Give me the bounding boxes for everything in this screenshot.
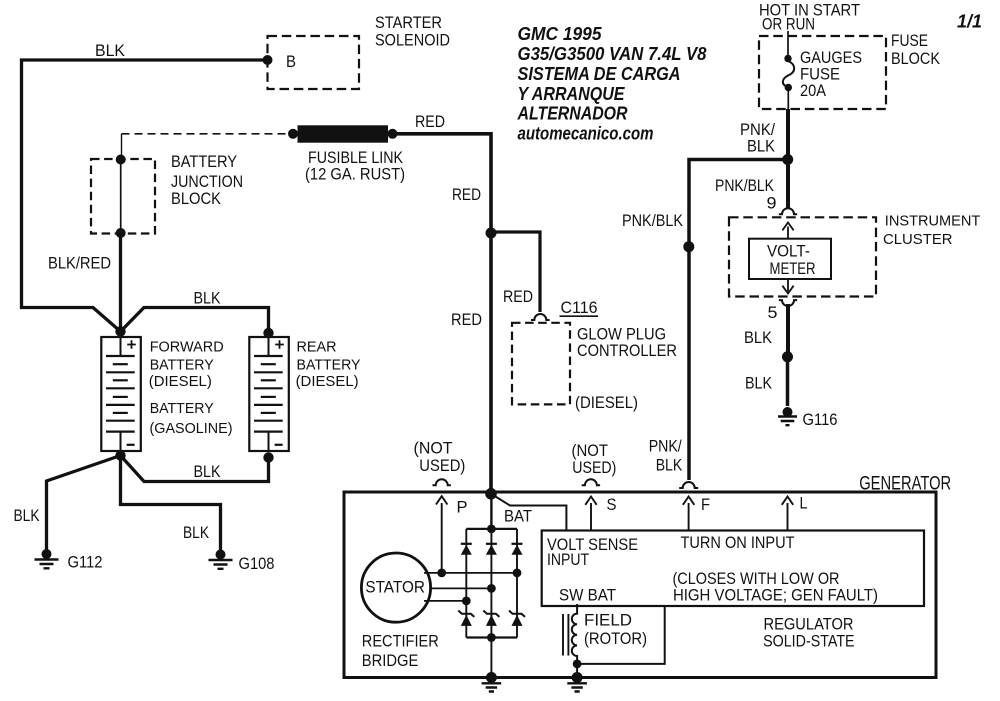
arrow up into voltmeter — [782, 223, 793, 240]
node dot PNK/BLK junction below fuse — [782, 154, 793, 165]
wire BLK forward battery negative to ground G112 — [47, 456, 121, 551]
label BLK battery top wire — [194, 289, 222, 308]
svg-text:PNK/BLK: PNK/BLK — [715, 176, 775, 195]
svg-text:(DIESEL): (DIESEL) — [149, 374, 212, 390]
svg-text:C116: C116 — [561, 298, 598, 317]
label RED lower on main red wire — [451, 310, 482, 329]
svg-text:BLK/RED: BLK/RED — [48, 254, 111, 273]
label VOLT SENSE INPUT — [547, 535, 638, 569]
ground G108 — [209, 550, 233, 569]
connector bump S not used — [582, 479, 600, 485]
label (DIESEL) glow plug — [575, 393, 638, 412]
label INSTRUMENT CLUSTER — [883, 213, 980, 249]
svg-text:USED): USED) — [572, 458, 616, 477]
label pin S — [607, 495, 617, 514]
svg-text:S: S — [607, 495, 617, 514]
svg-text:G112: G112 — [68, 553, 103, 572]
svg-text:BLK: BLK — [194, 289, 222, 308]
svg-text:GENERATOR: GENERATOR — [859, 473, 951, 494]
glow plug controller dashed box — [512, 323, 570, 405]
label STARTER SOLENOID — [375, 13, 450, 50]
wire BLK horizontal from forward battery to rear battery positive — [121, 308, 269, 334]
label pin 5 — [768, 303, 778, 322]
stator phase wire 1 — [424, 572, 517, 574]
label GAUGES FUSE 20A — [800, 48, 862, 100]
label (NOT USED) at S — [572, 441, 617, 477]
label RED at fusible link — [415, 112, 445, 131]
label RED on glow plug branch — [503, 287, 533, 306]
node dot forward battery positive — [115, 326, 125, 336]
wire thin vertical inside battery junction block — [120, 160, 122, 234]
svg-text:RED: RED — [503, 287, 533, 306]
node dot rear battery positive — [263, 328, 273, 338]
svg-text:INPUT: INPUT — [547, 550, 589, 569]
svg-text:BATTERY: BATTERY — [297, 357, 361, 373]
ground at rectifier bridge — [482, 672, 502, 692]
label FORWARD BATTERY (DIESEL) BATTERY (GASOLINE) — [149, 339, 233, 437]
label pin L — [800, 494, 808, 513]
svg-text:B: B — [286, 52, 296, 71]
label PNK/BLK above pin 9 — [715, 176, 775, 195]
label (NOT USED) at P — [414, 439, 466, 476]
connector C116 bump on glow plug controller — [531, 314, 550, 320]
label CLOSES WITH LOW OR HIGH VOLTAGE GEN FAULT — [673, 569, 879, 605]
svg-text:FORWARD: FORWARD — [150, 339, 224, 355]
label STATOR — [365, 579, 425, 597]
arrow L terminal — [782, 497, 793, 531]
node dot PNK/BLK mid junction — [683, 241, 694, 252]
forward battery symbol — [101, 337, 141, 451]
svg-text:BRIDGE: BRIDGE — [362, 651, 419, 670]
dashed wire from battery junction block to fusible link — [122, 134, 293, 158]
battery junction block dashed box — [91, 159, 155, 234]
svg-text:BLOCK: BLOCK — [891, 49, 941, 68]
svg-text:HIGH VOLTAGE; GEN FAULT): HIGH VOLTAGE; GEN FAULT) — [673, 586, 878, 605]
label pin B — [286, 52, 296, 71]
label FUSIBLE LINK value — [305, 148, 405, 184]
label BLK rear battery negative wire — [194, 462, 222, 481]
svg-text:OR RUN: OR RUN — [762, 15, 815, 34]
stator winding circle — [361, 553, 430, 622]
wire BLK from starter solenoid B terminal down-left to forward battery positive — [22, 60, 268, 332]
svg-text:(GASOLINE): (GASOLINE) — [150, 421, 233, 437]
instrument cluster dashed box — [729, 217, 876, 296]
rectifier bridge top bus — [466, 528, 517, 530]
rectifier bridge bottom bus — [466, 636, 517, 638]
zener diode D5 lower middle — [483, 611, 499, 626]
svg-text:TURN ON INPUT: TURN ON INPUT — [681, 533, 795, 552]
svg-text:BATTERY: BATTERY — [150, 357, 214, 373]
label pin P — [457, 498, 468, 517]
wire rectifier to generator case ground — [490, 638, 492, 678]
label BLK to G108 — [183, 523, 210, 542]
svg-text:PNK/: PNK/ — [649, 437, 682, 456]
svg-text:G108: G108 — [239, 554, 275, 573]
label BATTERY JUNCTION BLOCK — [171, 152, 243, 208]
svg-text:G116: G116 — [803, 410, 838, 429]
svg-text:(12 GA. RUST): (12 GA. RUST) — [305, 165, 405, 184]
svg-text:Y ARRANQUE: Y ARRANQUE — [518, 84, 626, 104]
svg-text:CONTROLLER: CONTROLLER — [577, 341, 677, 360]
voltmeter box U1 — [749, 239, 831, 279]
field rotor coil core bars — [563, 614, 568, 656]
connector bump pin 5 on instrument cluster bottom — [779, 300, 797, 306]
node dot forward battery negative — [115, 450, 125, 460]
node dot BAT at generator box edge — [485, 488, 497, 500]
title block GMC 1995 — [517, 24, 707, 144]
node dot RED wire junction to glow plug branch — [486, 228, 497, 239]
svg-text:BLK: BLK — [747, 137, 776, 156]
rectifier bridge left rail — [465, 529, 467, 638]
wire PNK/BLK from fuse block down to junction — [786, 109, 790, 160]
stator phase wire 3 — [424, 600, 466, 602]
svg-text:9: 9 — [767, 194, 777, 213]
label PNK/BLK at generator F terminal — [649, 437, 683, 475]
svg-text:SW BAT: SW BAT — [559, 586, 616, 605]
label RED upper on main red wire — [452, 185, 481, 204]
svg-text:BATTERY: BATTERY — [150, 401, 214, 417]
node dot P on phase 1 — [437, 569, 446, 578]
svg-text:BAT: BAT — [504, 507, 532, 526]
connector bump at generator F terminal — [679, 482, 698, 488]
svg-text:BLK: BLK — [95, 41, 126, 60]
svg-text:1/1: 1/1 — [957, 12, 982, 32]
label BLK/RED — [48, 254, 111, 273]
node dot field coil bottom — [573, 660, 582, 669]
label PNK/BLK left branch — [622, 211, 684, 230]
wire BAT down into rectifier bridge — [490, 494, 492, 529]
svg-text:ALTERNADOR: ALTERNADOR — [517, 104, 628, 124]
node dot rear battery negative — [263, 452, 273, 462]
svg-text:F: F — [701, 495, 710, 514]
zener diode D6 lower right — [509, 611, 525, 626]
node dot rectifier bottom bus — [487, 633, 496, 642]
field rotor coil L1 — [572, 604, 577, 664]
label BAT — [504, 507, 532, 526]
svg-text:PNK/BLK: PNK/BLK — [622, 211, 684, 230]
label REGULATOR SOLID-STATE — [763, 616, 855, 651]
wire BLK forward battery negative to ground G108 — [121, 456, 221, 551]
stator phase wire 2 — [430, 587, 491, 589]
svg-text:(DIESEL): (DIESEL) — [575, 393, 638, 412]
svg-text:METER: METER — [770, 259, 816, 278]
diode D2 upper middle — [486, 544, 497, 555]
node dot BLK splice — [782, 351, 793, 362]
rear battery symbol — [249, 337, 288, 451]
connector bump pin 9 on instrument cluster — [779, 208, 797, 214]
wire RED from fusible link right and down to generator BAT — [393, 134, 492, 492]
regulator solid-state box — [542, 531, 924, 607]
svg-text:RED: RED — [415, 112, 445, 131]
svg-text:(ROTOR): (ROTOR) — [584, 629, 647, 648]
svg-text:GMC 1995: GMC 1995 — [518, 24, 603, 44]
ground G116 — [778, 407, 797, 425]
svg-text:SOLID-STATE: SOLID-STATE — [763, 633, 855, 651]
label ground G108 — [239, 554, 275, 573]
wire BLK/RED from battery junction block to forward battery — [119, 233, 122, 332]
svg-text:RED: RED — [452, 185, 481, 204]
svg-text:INSTRUMENT: INSTRUMENT — [885, 213, 981, 230]
diode D1 upper left — [461, 544, 472, 555]
node dot phase 3 left rail — [462, 597, 471, 606]
connector bump P not used — [433, 479, 451, 485]
svg-text:BLK: BLK — [183, 523, 210, 542]
fuse block dashed box — [759, 36, 886, 109]
label PNK/BLK below fuse — [740, 120, 776, 156]
wire BLK from instrument cluster pin 5 down — [786, 304, 790, 357]
diode D3 upper right — [512, 544, 523, 555]
wire field loop back to regulator — [577, 606, 665, 664]
label BLK below pin 5 — [744, 328, 773, 347]
svg-text:STARTER: STARTER — [375, 13, 442, 32]
svg-text:STATOR: STATOR — [365, 579, 425, 597]
node dot phase 2 middle rail — [487, 584, 496, 593]
node dot rectifier top bus — [487, 525, 496, 534]
svg-text:REAR: REAR — [297, 339, 337, 355]
label BLK top left wire — [95, 41, 126, 60]
wire BLK rear battery negative to forward battery negative — [121, 456, 269, 482]
svg-text:SISTEMA DE CARGA: SISTEMA DE CARGA — [518, 64, 681, 84]
arrow P terminal — [436, 496, 447, 573]
node dot battery junction block top — [116, 155, 126, 165]
svg-text:CLUSTER: CLUSTER — [883, 231, 953, 248]
svg-text:(NOT: (NOT — [414, 439, 453, 458]
svg-text:BLK: BLK — [14, 506, 41, 525]
svg-text:BLK: BLK — [194, 462, 222, 481]
svg-text:RED: RED — [451, 310, 482, 329]
label REAR BATTERY (DIESEL) — [296, 339, 361, 390]
rectifier bridge right rail — [516, 529, 518, 638]
arrow S terminal — [585, 497, 596, 531]
svg-text:BLK: BLK — [656, 456, 683, 475]
svg-text:VOLT-: VOLT- — [767, 242, 810, 261]
label ground G116 — [803, 410, 838, 429]
generator box — [344, 492, 936, 678]
wire PNK/BLK from junction down to instrument cluster pin 9 — [786, 160, 790, 209]
svg-text:P: P — [457, 498, 468, 517]
ground G112 — [35, 549, 59, 568]
svg-text:L: L — [800, 494, 808, 513]
svg-text:BATTERY: BATTERY — [171, 152, 237, 171]
svg-text:(DIESEL): (DIESEL) — [296, 374, 359, 390]
svg-text:G35/G3500 VAN 7.4L V8: G35/G3500 VAN 7.4L V8 — [518, 44, 707, 64]
wire RED branch to glow plug controller C116 — [491, 232, 540, 312]
node B terminal dot on starter solenoid — [263, 55, 273, 65]
label connector C116 — [560, 298, 599, 317]
label VOLT-METER — [767, 242, 816, 279]
svg-text:FUSE: FUSE — [891, 31, 928, 50]
ground at field rotor — [567, 672, 587, 692]
starter solenoid dashed box — [268, 36, 360, 89]
svg-text:BLK: BLK — [744, 328, 773, 347]
svg-text:REGULATOR: REGULATOR — [764, 616, 854, 634]
label RECTIFIER BRIDGE — [362, 632, 439, 670]
svg-text:USED): USED) — [419, 456, 465, 475]
wire BAT diagonal to regulator volt sense — [493, 495, 566, 531]
svg-text:automecanico.com: automecanico.com — [518, 124, 654, 144]
wire BLK down to ground G116 — [786, 357, 790, 406]
svg-text:BLK: BLK — [745, 374, 773, 393]
svg-text:FIELD: FIELD — [584, 611, 632, 630]
label ground G112 — [68, 553, 103, 572]
svg-text:BLOCK: BLOCK — [171, 189, 222, 208]
wire field to generator case ground — [576, 664, 578, 678]
label HOT IN START OR RUN — [759, 1, 860, 34]
label pin 9 — [767, 194, 777, 213]
svg-text:RECTIFIER: RECTIFIER — [362, 632, 439, 651]
zener diode D4 lower left — [458, 611, 474, 626]
fusible link component (12 GA RUST) — [288, 125, 398, 142]
label GENERATOR — [859, 473, 951, 494]
rectifier bridge middle rail — [490, 529, 492, 638]
wire PNK/BLK left branch to generator F terminal — [689, 160, 788, 481]
svg-text:5: 5 — [768, 303, 778, 322]
wire from HOT IN START into fuse — [787, 31, 789, 59]
node dot battery junction block bottom — [116, 228, 126, 238]
label page 1/1 — [957, 12, 982, 32]
label FIELD (ROTOR) — [584, 611, 647, 649]
label GLOW PLUG CONTROLLER — [577, 325, 677, 361]
svg-text:SOLENOID: SOLENOID — [375, 31, 450, 50]
label SW BAT — [559, 586, 616, 605]
fuse GAUGES 20A symbol — [783, 55, 794, 109]
label BLK above G116 — [745, 374, 773, 393]
label FUSE BLOCK — [891, 31, 941, 68]
arrow F terminal — [683, 497, 694, 531]
svg-text:20A: 20A — [800, 81, 827, 100]
arrow down out of voltmeter — [782, 279, 793, 294]
label pin F — [701, 495, 710, 514]
node dot phase 1 right rail — [513, 569, 522, 578]
label TURN ON INPUT — [681, 533, 795, 552]
label BLK to G112 — [14, 506, 41, 525]
